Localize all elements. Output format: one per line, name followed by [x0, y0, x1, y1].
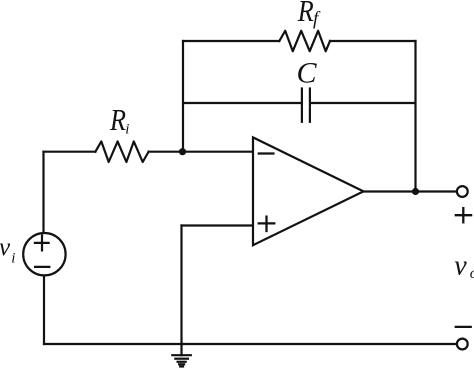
terminal upper output — [457, 186, 468, 197]
resistor Rf — [279, 31, 330, 51]
wire bottom rail — [44, 343, 457, 345]
label vi — [0, 234, 15, 266]
ground — [172, 344, 191, 367]
label vo — [454, 250, 474, 282]
terminal lower output — [457, 339, 468, 350]
voltage source vi — [23, 233, 65, 275]
node A : junction of Ri, feedback tap, inverting input — [179, 148, 186, 155]
wire noninverting input horizontal — [182, 224, 254, 226]
wire right feedback vertical — [414, 41, 416, 192]
wire top feedback row right lead — [330, 40, 416, 42]
node B : output junction — [412, 188, 419, 195]
op-amp U1 — [253, 137, 364, 245]
plus sign output — [456, 208, 471, 222]
minus sign output — [456, 326, 471, 328]
svg-text:R: R — [109, 102, 126, 137]
svg-text:i: i — [11, 250, 15, 266]
label Rf — [297, 0, 321, 30]
label C — [297, 57, 318, 90]
svg-text:C: C — [297, 57, 318, 90]
resistor Ri — [95, 141, 148, 162]
wire from source to Ri — [44, 151, 96, 153]
label Ri — [109, 102, 129, 137]
wire top feedback row left lead — [183, 40, 279, 42]
wire capacitor row left lead — [183, 102, 301, 104]
svg-text:v: v — [0, 234, 11, 261]
wire from Ri to inverting input — [149, 151, 253, 153]
wire left feedback vertical — [182, 41, 184, 152]
wire capacitor row right lead — [311, 102, 416, 104]
wire op-amp output — [364, 190, 457, 192]
svg-text:o: o — [470, 265, 474, 282]
svg-text:f: f — [313, 9, 321, 30]
svg-text:i: i — [125, 122, 129, 138]
svg-text:v: v — [454, 250, 467, 281]
wire source bottom vertical — [43, 276, 45, 344]
wire source top vertical — [42, 152, 44, 233]
capacitor C — [302, 89, 310, 122]
svg-text:R: R — [297, 0, 314, 28]
wire noninverting vertical down to ground rail — [180, 226, 182, 345]
